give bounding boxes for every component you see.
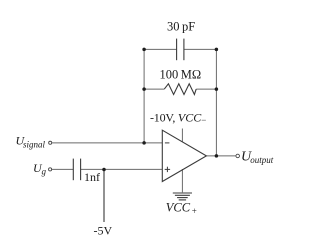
svg-text:signal: signal bbox=[23, 139, 46, 149]
svg-text:30 pF: 30 pF bbox=[167, 20, 195, 34]
svg-text:1nf: 1nf bbox=[84, 170, 100, 184]
svg-text:-10V, VCC−: -10V, VCC− bbox=[150, 110, 206, 125]
svg-text:g: g bbox=[42, 167, 47, 177]
svg-text:-5V: -5V bbox=[94, 223, 113, 237]
svg-text:100 MΩ: 100 MΩ bbox=[160, 68, 202, 82]
svg-text:+: + bbox=[192, 206, 197, 216]
svg-text:output: output bbox=[250, 155, 274, 165]
svg-text:VCC: VCC bbox=[166, 201, 191, 215]
